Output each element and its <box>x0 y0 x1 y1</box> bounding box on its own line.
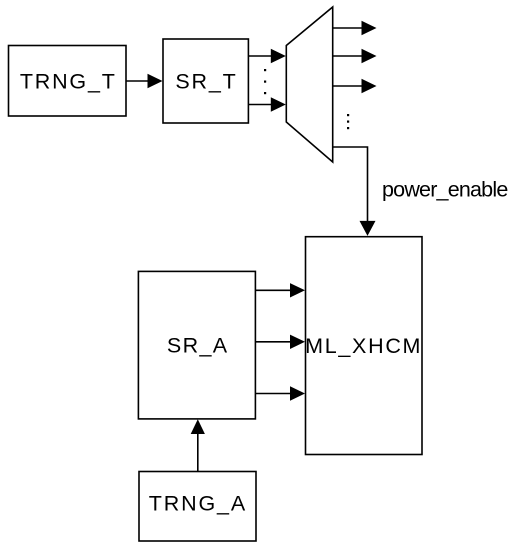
svg-text:power_enable: power_enable <box>382 178 507 202</box>
svg-text:TRNG_A: TRNG_A <box>149 492 247 516</box>
svg-text:SR_T: SR_T <box>175 69 237 93</box>
svg-text:SR_A: SR_A <box>167 334 229 358</box>
svg-text:TRNG_T: TRNG_T <box>20 69 117 93</box>
svg-text:ML_XHCM: ML_XHCM <box>305 334 422 358</box>
